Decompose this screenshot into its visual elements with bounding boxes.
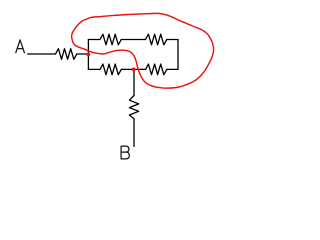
wire R4 to node N2 — [121, 68, 145, 70]
resistor R6 — [129, 96, 138, 119]
wire A to R1 — [28, 53, 56, 55]
wire left vertical — [87, 40, 89, 70]
resistor R4 — [146, 64, 167, 75]
wire R1 to node N1 — [77, 53, 89, 55]
wire bottom-left — [88, 68, 100, 70]
wire R6 to B — [133, 119, 135, 147]
wire top-right — [167, 39, 178, 41]
wire N2 down to R6 — [133, 69, 135, 95]
resistor R3 — [146, 34, 167, 45]
node A — [16, 40, 25, 53]
highlight loop (red) — [72, 13, 214, 88]
resistor R1 — [56, 49, 77, 60]
node N2 (red junction dot) — [132, 68, 136, 72]
wire right vertical — [177, 40, 179, 70]
node B — [121, 146, 129, 159]
node N1 (red junction dot) — [86, 53, 90, 57]
resistor R5 — [100, 64, 121, 75]
wire top-left — [88, 39, 100, 41]
resistor R2 — [100, 34, 121, 45]
wire bottom-right — [167, 68, 178, 70]
wire R2 to R3 — [121, 39, 145, 41]
